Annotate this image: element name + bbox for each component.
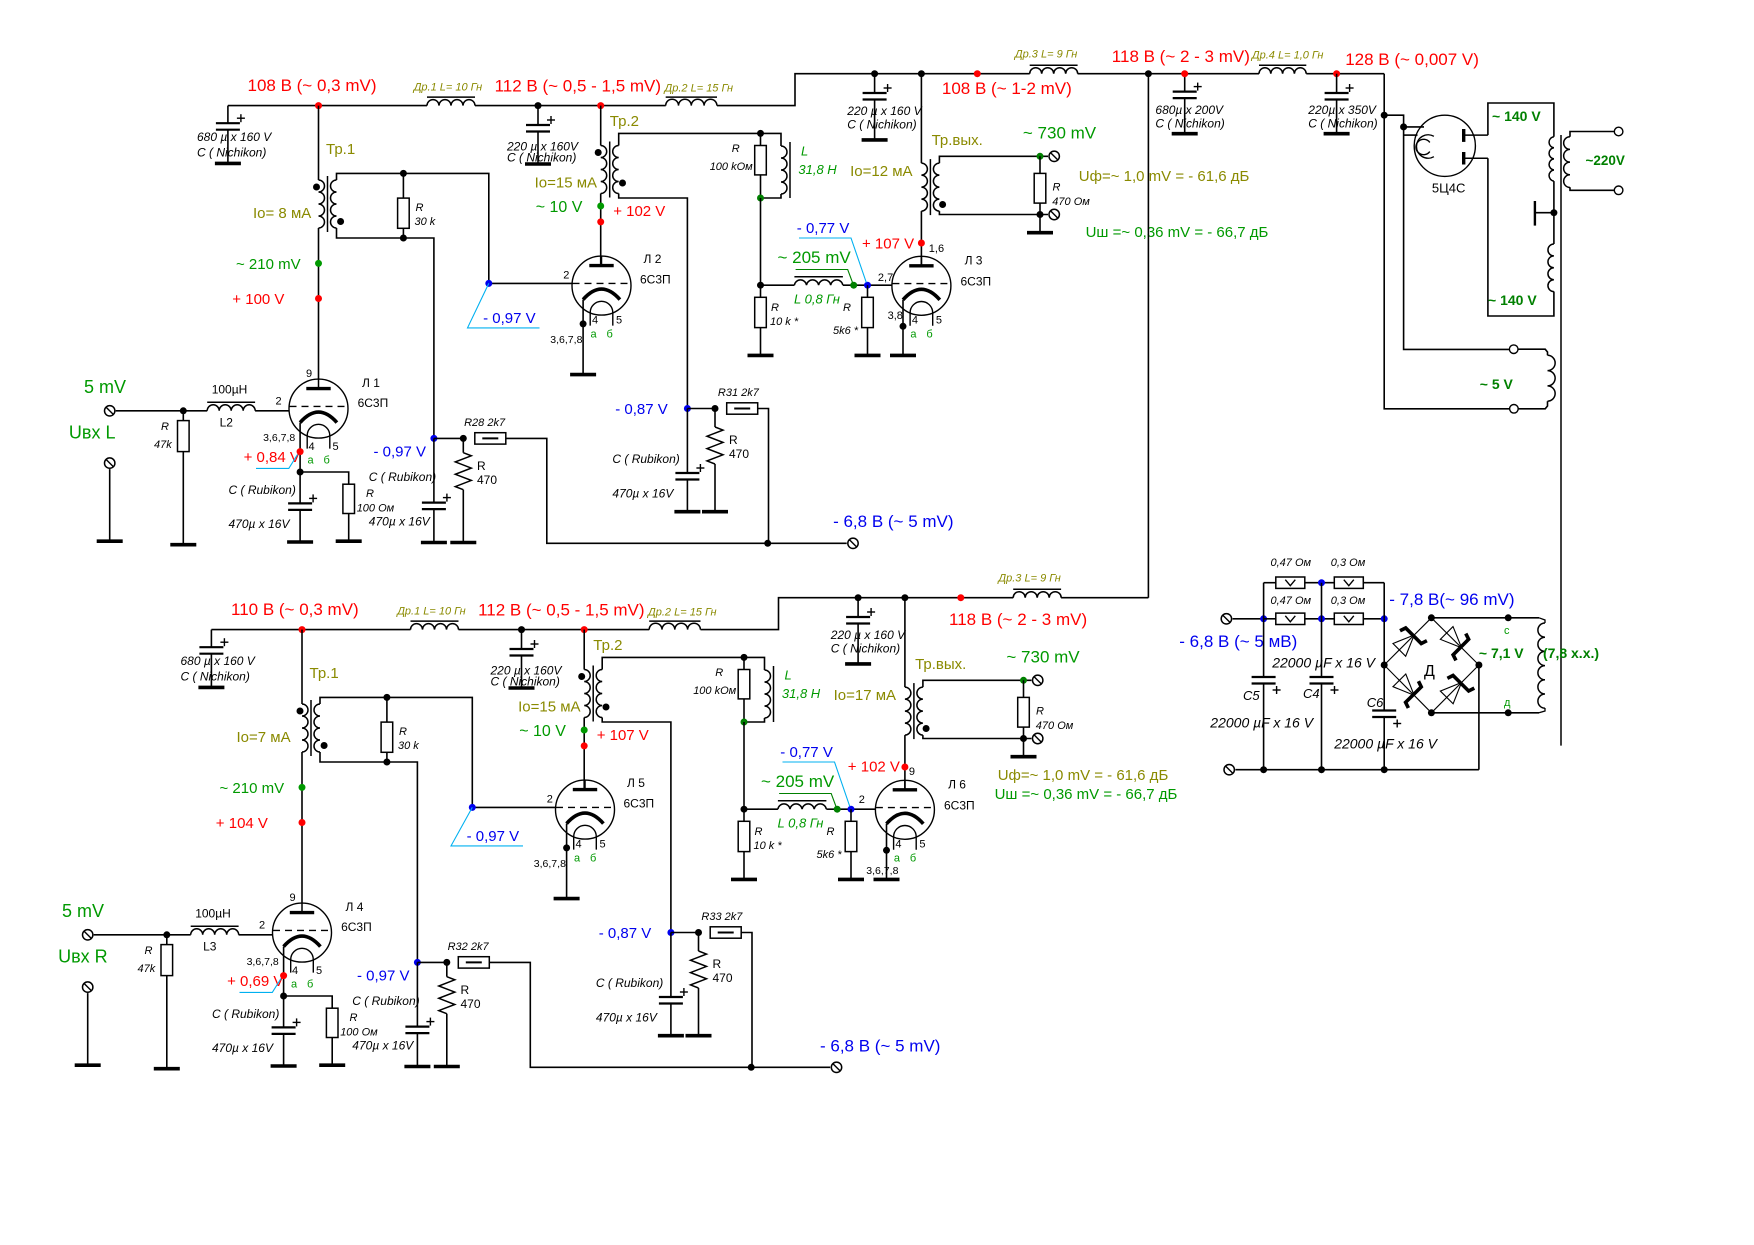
node output - L <box>1037 211 1044 218</box>
svg-text:470µ x 16V: 470µ x 16V <box>612 487 674 501</box>
svg-text:C ( Nichikon): C ( Nichikon) <box>1308 117 1377 131</box>
resistor (zigzag) <box>455 453 471 490</box>
output terminal + L <box>1049 151 1059 161</box>
svg-text:Л 6: Л 6 <box>948 778 966 792</box>
svg-text:- 6,8 В (~ 5 mV): - 6,8 В (~ 5 mV) <box>833 512 953 531</box>
svg-text:5: 5 <box>600 839 606 851</box>
resistor <box>475 433 506 444</box>
resistor <box>845 821 857 851</box>
wire R33 2k7 to rail R <box>741 933 752 1068</box>
svg-text:R: R <box>843 302 851 314</box>
wire 128V <box>1306 73 1384 75</box>
inductor 100µH L3 R <box>191 929 239 935</box>
resistor (zigzag) <box>439 977 455 1014</box>
node grid Л 2 L <box>485 280 492 287</box>
svg-text:R: R <box>732 143 740 155</box>
svg-text:5: 5 <box>333 441 339 453</box>
node output tr R <box>901 594 908 601</box>
ground <box>1027 231 1053 235</box>
terminal gnd supply <box>1224 765 1234 775</box>
resistor <box>398 198 410 228</box>
resistor <box>381 722 393 752</box>
svg-text:100µH: 100µH <box>212 383 248 397</box>
ground <box>570 373 596 377</box>
capacitor C4 22000µF <box>1321 619 1323 677</box>
ground <box>421 541 447 545</box>
wire 220V bottom <box>1570 187 1614 190</box>
svg-text:5: 5 <box>316 965 322 977</box>
node R30k bottom R <box>383 759 390 766</box>
svg-text:Тр.1: Тр.1 <box>310 665 339 682</box>
wire anode1 to HV winding top <box>1488 103 1554 137</box>
wire R <box>671 932 699 934</box>
resistor R 470 (2) L <box>714 409 716 428</box>
svg-text:R: R <box>827 826 835 838</box>
svg-text:470: 470 <box>477 473 497 487</box>
svg-text:2: 2 <box>259 920 265 932</box>
svg-text:4: 4 <box>912 315 918 327</box>
svg-text:L: L <box>785 668 792 683</box>
svg-text:~ 730 mV: ~ 730 mV <box>1006 648 1080 667</box>
ground <box>154 1067 180 1071</box>
svg-text:22000 µF x 16 V: 22000 µF x 16 V <box>1209 715 1314 731</box>
wire cathode Л 5 R <box>566 824 568 899</box>
input gnd terminal R <box>83 982 93 992</box>
svg-text:4: 4 <box>576 839 582 851</box>
capacitor 220µ x 160V (2) L <box>874 74 876 93</box>
svg-text:C ( Nichikon): C ( Nichikon) <box>491 675 560 689</box>
svg-text:а: а <box>308 455 315 467</box>
phase dot Тр.1 secondary R <box>321 742 328 749</box>
svg-text:R: R <box>477 459 486 473</box>
ground <box>287 540 313 544</box>
node -7,8V <box>1381 615 1388 622</box>
transformer core <box>1560 135 1562 746</box>
svg-text:2,7: 2,7 <box>878 272 893 284</box>
terminal -6,8V supply <box>1221 614 1231 624</box>
resistor <box>738 821 750 851</box>
phase dot Тр.вых L <box>939 201 946 208</box>
electrolytic capacitor <box>199 638 228 654</box>
terminal -6,8V L <box>848 538 858 548</box>
svg-text:1,6: 1,6 <box>929 243 944 255</box>
capacitor 220µ x 350V <box>1336 74 1338 93</box>
svg-text:а: а <box>894 853 901 865</box>
wire grid Л 4 R <box>239 934 273 936</box>
svg-text:110 В (~ 0,3 mV): 110 В (~ 0,3 mV) <box>231 600 359 619</box>
resistor <box>738 670 750 699</box>
svg-text:C6: C6 <box>1367 695 1384 710</box>
svg-text:R: R <box>145 945 153 957</box>
wire bridge top to winding <box>1431 617 1539 619</box>
inductor 100µH L2 L <box>207 405 255 411</box>
resistor R 10 k* R <box>743 809 745 821</box>
svg-text:30 k: 30 k <box>415 216 436 228</box>
svg-text:~ 730 mV: ~ 730 mV <box>1023 124 1097 143</box>
svg-text:Др.2 L= 15 Гн: Др.2 L= 15 Гн <box>663 83 734 95</box>
svg-text:R33 2k7: R33 2k7 <box>701 911 743 923</box>
svg-text:~ 210 mV: ~ 210 mV <box>236 256 301 273</box>
svg-text:Io=7 мА: Io=7 мА <box>237 729 291 746</box>
node cathode junction L <box>297 469 304 476</box>
resistor R 30k R <box>386 697 388 722</box>
node cathode Л 2 L <box>580 320 587 327</box>
ground <box>686 1034 712 1038</box>
ground <box>319 1063 345 1067</box>
resistor <box>755 297 767 327</box>
node -0,97V L <box>430 435 437 442</box>
choke Др.2 R <box>649 623 700 629</box>
resistor R 470 bias L <box>462 438 464 452</box>
terminal 5V bottom <box>1510 405 1519 414</box>
ground <box>198 686 224 690</box>
electrolytic capacitor <box>1325 84 1354 100</box>
node R30k top L <box>400 170 407 177</box>
wire heater to 5V winding <box>1404 127 1511 350</box>
svg-text:~ 5 V: ~ 5 V <box>1480 376 1514 392</box>
wire Тр.2 secondary top L <box>619 133 761 145</box>
svg-text:470µ x 16V: 470µ x 16V <box>229 517 291 531</box>
svg-text:30 k: 30 k <box>398 740 419 752</box>
resistor 0,47 Ом (2) <box>1276 613 1305 624</box>
svg-text:L3: L3 <box>203 940 217 954</box>
ground <box>890 354 916 358</box>
phase dot Тр.2 secondary L <box>619 180 626 187</box>
svg-text:+ 107 V: + 107 V <box>597 727 649 744</box>
wire to L0,8 L <box>761 284 795 286</box>
inductor L 31,8 Н L <box>761 133 782 146</box>
wire Тр.1 primary top L <box>318 106 320 180</box>
node R10k R <box>741 806 748 813</box>
node R100k top R <box>741 654 748 661</box>
wire L <box>1078 73 1100 75</box>
svg-text:- 0,97 V: - 0,97 V <box>374 444 427 461</box>
node winding top <box>1505 614 1512 621</box>
capacitor 680µ x 200V <box>1184 74 1186 92</box>
wire grid Л 3 L <box>843 284 892 286</box>
primary winding 220V <box>1564 137 1570 188</box>
wire 220V top <box>1570 132 1614 137</box>
wire R <box>459 629 650 631</box>
svg-text:а: а <box>574 853 581 865</box>
node 118V cap <box>1181 70 1188 77</box>
svg-text:L 0,8 Гн: L 0,8 Гн <box>778 816 824 831</box>
diode Д2 <box>1438 624 1475 661</box>
svg-text:Тр.2: Тр.2 <box>610 113 639 130</box>
resistor <box>178 421 190 452</box>
wire Тр.вых secondary bottom R <box>923 735 1032 738</box>
svg-text:Др.1 L= 10 Гн: Др.1 L= 10 Гн <box>412 82 483 94</box>
phase dot Тр.2 primary R <box>578 673 585 680</box>
svg-text:Io=15 мА: Io=15 мА <box>518 699 580 716</box>
svg-text:д: д <box>1504 697 1511 709</box>
svg-text:Др.1 L= 10 Гн: Др.1 L= 10 Гн <box>395 606 466 618</box>
node cap L <box>535 102 542 109</box>
wire cathode Л 3 L <box>902 300 904 356</box>
wire Тр.вых secondary top L <box>939 156 1048 163</box>
phase dot Тр.2 primary L <box>595 149 602 156</box>
ground <box>434 1065 460 1069</box>
svg-text:+ 104 V: + 104 V <box>216 815 268 832</box>
wire Тр.1 secondary bottom L <box>337 228 434 438</box>
svg-text:108 В (~ 1-2 mV): 108 В (~ 1-2 mV) <box>942 79 1072 98</box>
svg-text:6С3П: 6С3П <box>961 275 992 289</box>
resistor <box>755 146 767 175</box>
terminal 220V top <box>1614 127 1623 136</box>
svg-text:б: б <box>910 853 916 865</box>
node -0,97V R <box>414 959 421 966</box>
wire anode2 to HV winding bottom <box>1488 158 1554 316</box>
svg-text:100 Ом: 100 Ом <box>357 503 395 515</box>
svg-text:~ 140 V: ~ 140 V <box>1492 108 1541 124</box>
wire Тр.вых primary top L <box>920 74 922 163</box>
wire 5V top <box>1518 349 1548 355</box>
ground <box>845 662 871 666</box>
node R100k top L <box>757 130 764 137</box>
wire 5V bottom <box>1518 401 1547 409</box>
electrolytic capacitor <box>1173 83 1202 99</box>
svg-text:31,8 Н: 31,8 Н <box>798 162 837 177</box>
svg-text:9: 9 <box>290 892 296 904</box>
resistor (zigzag) <box>707 427 723 464</box>
node 210mV L <box>315 260 322 267</box>
resistor R 470 (2) R <box>698 933 700 952</box>
phase dot Тр.1 primary L <box>313 184 320 191</box>
winding 7,1V <box>1538 623 1545 708</box>
wire to L0,8 R <box>744 808 778 810</box>
resistor R 470 bias R <box>446 962 448 976</box>
diode Д4 <box>1438 670 1475 707</box>
svg-text:- 0,87 V: - 0,87 V <box>615 401 668 418</box>
output transformer Тр.вых L <box>921 159 939 215</box>
node row2 mid <box>1318 615 1325 622</box>
node R470 L <box>460 435 467 442</box>
resistor R 47k L <box>182 411 184 421</box>
node + 100 V L <box>315 295 322 302</box>
wire -6,8V rail L <box>506 438 847 543</box>
node + 102 V R <box>901 764 908 771</box>
wire Тр.1 secondary top to grid R <box>320 697 555 807</box>
node output + L <box>1037 153 1044 160</box>
wire B+ rail R <box>211 629 410 631</box>
wire L <box>109 469 111 541</box>
wire to rectifier cathode <box>1384 115 1424 127</box>
svg-text:10 k *: 10 k * <box>754 840 783 852</box>
wire L <box>1039 215 1041 233</box>
svg-text:470 Ом: 470 Ом <box>1052 196 1090 208</box>
svg-text:R28 2k7: R28 2k7 <box>464 417 506 429</box>
node -0,77V L <box>864 282 871 289</box>
capacitor 680µ x 160V L <box>227 106 229 124</box>
triode Л 3 6С3П L <box>892 256 951 326</box>
svg-text:Io=12 мА: Io=12 мА <box>850 163 912 180</box>
resistor 0,47 Ом (1) <box>1276 577 1305 588</box>
HV winding top half <box>1549 137 1554 181</box>
svg-text:2: 2 <box>859 794 865 806</box>
choke Др.1 L <box>427 100 475 106</box>
svg-text:R: R <box>755 826 763 838</box>
svg-text:100 kОм: 100 kОм <box>710 161 753 173</box>
svg-text:б: б <box>607 329 613 341</box>
node cathode Л 6 R <box>883 847 890 854</box>
svg-text:6С3П: 6С3П <box>358 396 389 410</box>
wire Тр.вых primary to anode L <box>920 211 922 266</box>
svg-text:Тр.2: Тр.2 <box>593 637 622 654</box>
node -6,8V rail R <box>748 1064 755 1071</box>
svg-text:470: 470 <box>729 447 749 461</box>
svg-text:5 mV: 5 mV <box>84 377 126 397</box>
node 210mV R <box>299 784 306 791</box>
svg-text:R: R <box>161 421 169 433</box>
ground <box>855 354 881 358</box>
capacitor 470µ x 16V -0,87V L <box>686 409 688 474</box>
electrolytic capacitor <box>863 84 892 100</box>
svg-text:4: 4 <box>895 839 901 851</box>
node rectifier cathode junction <box>1381 112 1388 119</box>
node + 107 V R <box>581 742 588 749</box>
svg-text:- 0,77 V: - 0,77 V <box>797 220 850 237</box>
wire bridge bottom to winding <box>1431 712 1539 714</box>
inductor L 0,8 Гн L <box>794 280 842 285</box>
svg-text:Др.2 L= 15 Гн: Др.2 L= 15 Гн <box>646 607 717 619</box>
node input R <box>163 931 170 938</box>
input gnd terminal L <box>105 458 115 468</box>
wire center tap <box>1535 212 1554 214</box>
node output - R <box>1020 735 1027 742</box>
wire HV center <box>1553 181 1555 244</box>
node C5 bottom <box>1260 766 1267 773</box>
svg-text:R: R <box>366 488 374 500</box>
resistor R 30k L <box>402 173 404 198</box>
node + 102 V L <box>597 218 604 225</box>
electrolytic capacitor <box>1372 711 1401 728</box>
svg-text:~ 7,1 V: ~ 7,1 V <box>1479 645 1524 661</box>
capacitor 470µ x 16V -0,87V R <box>670 933 672 998</box>
node left <box>1260 615 1267 622</box>
ground <box>731 878 757 882</box>
svg-text:R: R <box>461 983 470 997</box>
svg-text:128 В (~ 0,007 V): 128 В (~ 0,007 V) <box>1345 50 1479 69</box>
resistor R 100 kОм R <box>743 657 745 669</box>
node heater junction <box>1400 123 1407 130</box>
svg-text:22000 µF x 16 V: 22000 µF x 16 V <box>1271 655 1376 671</box>
svg-text:Uф=~ 1,0 mV = - 61,6 дБ: Uф=~ 1,0 mV = - 61,6 дБ <box>1079 168 1250 185</box>
transformer Тр.1 R <box>302 700 320 756</box>
svg-text:C5: C5 <box>1243 688 1260 703</box>
wire Тр.вых primary to anode R <box>904 735 906 790</box>
svg-text:R: R <box>771 302 779 314</box>
callout -0,77V R <box>783 762 850 807</box>
resistor 0,3 Ом (1) <box>1334 577 1363 588</box>
svg-text:R: R <box>715 667 723 679</box>
svg-text:2: 2 <box>276 396 282 408</box>
wire -6,8V rail R <box>490 962 831 1067</box>
wire step-up R <box>701 598 1014 630</box>
resistor R 470 Ом load L <box>1039 156 1041 173</box>
ground <box>702 510 728 514</box>
svg-text:C ( Nichikon): C ( Nichikon) <box>197 146 266 160</box>
svg-text:220µ x 350V: 220µ x 350V <box>1307 103 1377 117</box>
svg-text:Io= 8 мА: Io= 8 мА <box>253 205 311 222</box>
electrolytic capacitor <box>526 116 555 132</box>
wire to rectifier heater <box>1404 134 1418 136</box>
wire R <box>1061 597 1083 599</box>
electrolytic capacitor <box>1252 677 1281 694</box>
wire right <box>1383 583 1385 619</box>
capacitor 220µ x 160V (2) R <box>857 598 859 617</box>
capacitor 220µ x 160V L <box>537 106 539 125</box>
wire Тр.2 primary top R <box>583 630 585 670</box>
svg-text:+ 102 V: + 102 V <box>848 759 900 776</box>
phase dot Тр.1 secondary L <box>337 218 344 225</box>
svg-text:C ( Rubikon): C ( Rubikon) <box>612 452 679 466</box>
node 112V R <box>581 626 588 633</box>
svg-text:Uш =~ 0,36 mV = - 66,7 дБ: Uш =~ 0,36 mV = - 66,7 дБ <box>1086 224 1269 241</box>
ground <box>404 1065 430 1069</box>
svg-text:Др.3 L= 9 Гн: Др.3 L= 9 Гн <box>1013 49 1077 61</box>
svg-text:C ( Nichikon): C ( Nichikon) <box>847 118 916 132</box>
wire Тр.вых primary top R <box>904 598 906 687</box>
phase dot Тр.2 secondary R <box>603 704 610 711</box>
transformer Тр.2 R <box>584 666 602 722</box>
resistor <box>727 403 758 414</box>
choke Др.4 <box>1259 68 1306 74</box>
svg-text:0,3 Ом: 0,3 Ом <box>1331 595 1366 607</box>
resistor R 10 k* L <box>760 285 762 297</box>
svg-text:470µ x 16V: 470µ x 16V <box>212 1041 274 1055</box>
choke Др.3 R <box>1013 592 1061 598</box>
ground <box>554 897 580 901</box>
svg-text:0,3 Ом: 0,3 Ом <box>1331 557 1366 569</box>
svg-text:108 В (~ 0,3 mV): 108 В (~ 0,3 mV) <box>248 76 377 95</box>
ground <box>838 878 864 882</box>
svg-text:R: R <box>1036 706 1044 718</box>
svg-text:680 µ x 160 V: 680 µ x 160 V <box>181 654 256 668</box>
ground <box>170 543 196 547</box>
ground <box>1011 755 1037 759</box>
svg-text:Uвх L: Uвх L <box>69 423 116 443</box>
triode Л 4 6С3П R <box>273 903 332 973</box>
node 128V <box>1333 70 1340 77</box>
svg-text:470µ x 16V: 470µ x 16V <box>369 515 431 529</box>
svg-text:9: 9 <box>909 766 915 778</box>
node C4 bottom <box>1318 766 1325 773</box>
svg-text:- 6,8 В (~ 5 мВ): - 6,8 В (~ 5 мВ) <box>1179 632 1297 651</box>
wire Тр.1 primary to anode L <box>318 228 320 379</box>
ground <box>874 878 900 882</box>
svg-text:Л 1: Л 1 <box>362 376 380 390</box>
svg-text:C ( Rubikon): C ( Rubikon) <box>369 470 436 484</box>
resistor <box>1018 697 1030 727</box>
wire to R10k L <box>760 198 762 285</box>
svg-text:- 0,97 V: - 0,97 V <box>483 310 536 327</box>
node output + R <box>1020 677 1027 684</box>
svg-text:5k6 *: 5k6 * <box>817 849 843 861</box>
svg-text:118 В (~ 2 - 3 mV): 118 В (~ 2 - 3 mV) <box>949 610 1087 629</box>
resistor <box>458 957 489 968</box>
svg-text:5 mV: 5 mV <box>62 901 104 921</box>
resistor (zigzag) <box>691 951 707 988</box>
wire step-up L <box>717 74 1030 106</box>
svg-text:L 0,8 Гн: L 0,8 Гн <box>794 292 840 307</box>
svg-text:- 7,8 В(~ 96 mV): - 7,8 В(~ 96 mV) <box>1389 590 1514 609</box>
ground <box>97 539 123 543</box>
node cap2 R <box>855 594 862 601</box>
wire L <box>475 105 666 107</box>
node cap R <box>518 626 525 633</box>
ground <box>674 510 700 514</box>
node R30k bottom L <box>400 235 407 242</box>
